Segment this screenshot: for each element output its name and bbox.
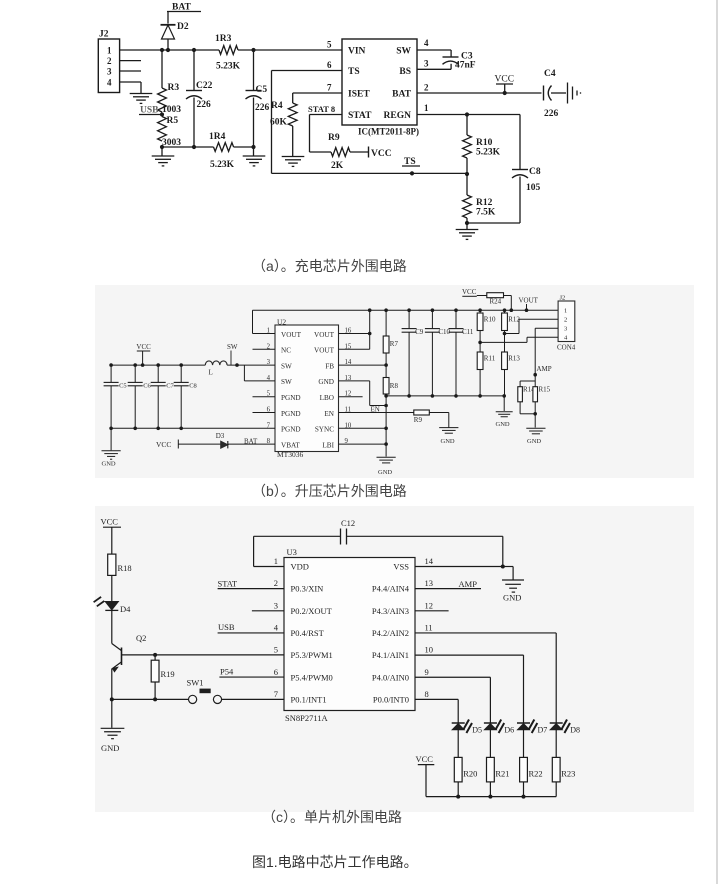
section b gray backdrop: [95, 285, 694, 478]
svg-text:GND: GND: [318, 378, 334, 386]
ground below C5 bottom rail: [243, 155, 266, 157]
svg-text:7: 7: [327, 83, 332, 93]
resistor R20: [454, 757, 462, 782]
wire CON4 pin4 jog: [480, 341, 527, 343]
svg-text:5.23K: 5.23K: [216, 62, 241, 72]
svg-text:VCC: VCC: [416, 754, 434, 764]
connector J2 CON4: [558, 301, 575, 342]
resistor R15: [534, 381, 536, 387]
node rail pin16 vertical: [368, 308, 372, 312]
svg-text:LBO: LBO: [320, 394, 334, 402]
svg-text:C5: C5: [119, 382, 127, 389]
node R14 R15 bottom: [520, 413, 535, 415]
svg-text:4: 4: [107, 78, 112, 88]
svg-text:R10: R10: [484, 316, 496, 324]
ground below AMP divider: [526, 427, 545, 429]
wire R13 rail to ground: [503, 396, 505, 411]
svg-text:2: 2: [274, 578, 278, 588]
svg-text:ISET: ISET: [348, 90, 370, 100]
wire SW pin4 to C3: [417, 49, 451, 51]
svg-text:C11: C11: [462, 328, 474, 336]
svg-text:P0.2/XOUT: P0.2/XOUT: [291, 606, 333, 616]
svg-text:（c）。单片机外围电路: （c）。单片机外围电路: [262, 809, 402, 825]
svg-text:D3: D3: [216, 432, 225, 440]
svg-text:VCC: VCC: [101, 517, 119, 527]
svg-text:C8: C8: [529, 167, 541, 177]
ground rotated right of C4: [567, 83, 569, 104]
svg-text:LBI: LBI: [322, 441, 334, 449]
ground below R13 rail: [496, 411, 513, 413]
node C6 top: [133, 363, 137, 367]
svg-text:VCC: VCC: [156, 440, 171, 449]
svg-text:MT3036: MT3036: [277, 450, 304, 459]
svg-text:J2: J2: [560, 295, 566, 302]
node R5 bottom junction: [160, 145, 164, 149]
node TS R10 R12 junction: [465, 172, 469, 176]
power VCC tick right of R9: [368, 147, 370, 158]
svg-text:47nF: 47nF: [455, 61, 476, 71]
node Q2 emitter junction: [110, 697, 114, 701]
node C11 bottom: [454, 394, 458, 398]
wire U2 pin16 pin15 to rail: [339, 333, 370, 335]
svg-text:VOUT: VOUT: [314, 347, 335, 355]
wire STAT pin8 to R9: [310, 114, 343, 116]
wire USB to pin4: [218, 632, 284, 634]
node R12 R13 junction: [503, 332, 507, 336]
svg-text:AMP: AMP: [537, 365, 552, 373]
node FB junction: [384, 363, 388, 367]
wire U2 pin9 LBI: [339, 443, 387, 445]
wire REGN pin1 run: [417, 114, 520, 116]
svg-text:VBAT: VBAT: [281, 441, 300, 449]
wire U2 pin11 EN to R9b: [339, 412, 414, 414]
svg-text:Q2: Q2: [136, 633, 146, 643]
svg-text:P0.0/INT0: P0.0/INT0: [373, 694, 409, 704]
wire R24 to rail: [504, 295, 512, 297]
svg-text:R12: R12: [476, 198, 493, 208]
svg-text:USB: USB: [140, 106, 159, 116]
resistor R10: [466, 115, 468, 136]
page right border: [716, 0, 718, 884]
wire U2 pin2 NC stub: [253, 348, 276, 350]
wire bottom rail b left: [111, 427, 275, 429]
svg-text:VCC: VCC: [136, 343, 151, 351]
svg-text:2K: 2K: [331, 161, 344, 171]
wire U2 pin6 stub: [253, 412, 276, 414]
ground below EN vertical: [376, 456, 395, 458]
capacitor C5 section b: [110, 365, 112, 382]
wire BAT to D2: [167, 12, 169, 24]
svg-text:P5.3/PWM1: P5.3/PWM1: [291, 650, 333, 660]
wire D5 to R20: [457, 730, 459, 758]
svg-text:1: 1: [564, 307, 567, 314]
wire U2 pin14 FB: [339, 364, 387, 366]
svg-text:5: 5: [274, 645, 278, 655]
svg-text:PGND: PGND: [281, 410, 301, 418]
svg-text:PGND: PGND: [281, 394, 301, 402]
svg-text:SW1: SW1: [187, 678, 204, 688]
svg-text:D7: D7: [538, 726, 548, 735]
wire VSS pin14: [415, 566, 503, 568]
svg-text:P4.2/AIN2: P4.2/AIN2: [372, 628, 409, 638]
ground at R9b: [439, 427, 458, 429]
svg-text:PGND: PGND: [281, 426, 301, 434]
wire U2 pin5 stub: [253, 396, 276, 398]
node R19 top: [153, 653, 157, 657]
svg-text:GND: GND: [101, 743, 119, 753]
wire emitter rail to SW1: [112, 698, 188, 700]
wire ISET pin7 to R4: [293, 92, 342, 94]
capacitor C7 section b: [157, 365, 159, 382]
wire pin3 stub: [252, 610, 284, 612]
wire J2 pin3 stub: [120, 70, 141, 72]
node pin16 junction: [368, 332, 372, 336]
node C11 top: [454, 308, 458, 312]
wire R12 bottom to C8: [467, 222, 520, 224]
ground below R12: [456, 229, 479, 231]
led D4: [105, 602, 118, 610]
diode D3: [221, 441, 228, 448]
svg-text:11: 11: [425, 622, 433, 632]
resistor R11: [479, 342, 481, 352]
resistor R21: [487, 757, 495, 782]
svg-text:CON4: CON4: [557, 344, 576, 352]
svg-text:13: 13: [425, 578, 434, 588]
wire C12 to VSS: [347, 535, 503, 537]
svg-text:R15: R15: [539, 386, 551, 394]
svg-text:9: 9: [425, 667, 429, 677]
node C9 top: [407, 308, 411, 312]
svg-text:D4: D4: [120, 604, 131, 614]
capacitor C8: [519, 115, 521, 170]
svg-text:STAT 8: STAT 8: [308, 104, 335, 114]
node C7 bottom: [156, 427, 160, 431]
ground at J2 pin4: [130, 93, 153, 95]
wire main VIN rail: [120, 49, 219, 51]
svg-text:P0.1/INT1: P0.1/INT1: [291, 694, 327, 704]
svg-text:5.23K: 5.23K: [476, 148, 501, 158]
svg-text:5: 5: [327, 40, 332, 50]
resistor R7: [385, 310, 387, 336]
capacitor C9: [408, 310, 410, 328]
node R13 bottom rail end: [502, 394, 506, 398]
resistor R23: [552, 757, 560, 782]
wire D3 to U2 pin8: [228, 443, 275, 445]
node pin13 to EN vertical: [384, 404, 388, 408]
led D7: [523, 715, 525, 724]
resistor R12: [463, 195, 472, 218]
svg-text:7.5K: 7.5K: [476, 208, 496, 218]
node R3 tap: [160, 48, 164, 52]
wire R20 to rail: [457, 782, 459, 797]
wire AMP divider to ground: [534, 414, 536, 428]
svg-text:R18: R18: [118, 563, 132, 573]
svg-text:226: 226: [197, 100, 212, 110]
wire EN vertical to ground: [385, 396, 387, 457]
wire bottom rail 2 section b: [386, 395, 504, 397]
resistor R10 section b: [479, 310, 481, 313]
node R10 R11 junction: [478, 341, 482, 345]
svg-text:P54: P54: [220, 667, 234, 677]
svg-text:VOUT: VOUT: [314, 331, 335, 339]
wire R9b to ground: [429, 412, 449, 414]
wire pin13 AMP: [415, 588, 481, 590]
svg-text:C6: C6: [143, 382, 151, 389]
svg-text:（b）。升压芯片外围电路: （b）。升压芯片外围电路: [252, 483, 407, 499]
svg-text:3: 3: [424, 59, 429, 69]
svg-text:12: 12: [425, 600, 434, 610]
svg-text:1: 1: [274, 556, 278, 566]
node R20 rail: [456, 795, 460, 799]
svg-text:P0.3/XIN: P0.3/XIN: [291, 584, 324, 594]
svg-text:5.23K: 5.23K: [210, 160, 235, 170]
svg-text:3: 3: [564, 325, 567, 332]
svg-text:SW: SW: [281, 362, 292, 370]
svg-text:3: 3: [107, 67, 112, 77]
node AMP: [533, 373, 537, 377]
node C5 tap: [251, 48, 255, 52]
svg-text:C8: C8: [189, 382, 197, 389]
svg-text:6: 6: [274, 667, 278, 677]
node VCC tap on BAT wire: [503, 91, 507, 95]
wire Q2 emitter to ground: [111, 699, 113, 727]
wire Q2 emitter down: [111, 669, 113, 700]
node C7 top: [156, 363, 160, 367]
svg-text:VCC: VCC: [495, 75, 515, 85]
wire D6 to R21: [489, 730, 491, 758]
svg-text:USB: USB: [218, 622, 235, 632]
svg-text:GND: GND: [503, 593, 521, 603]
node R19 bottom: [153, 697, 157, 701]
svg-text:VCC: VCC: [462, 288, 477, 296]
charger IC U1 MT2011-8P: [342, 39, 417, 125]
svg-text:D8: D8: [570, 726, 580, 735]
wire U2 pin10 SYNC: [339, 427, 387, 429]
node C5 bottom: [251, 145, 255, 149]
svg-text:1R4: 1R4: [209, 132, 226, 142]
svg-text:1: 1: [107, 46, 112, 56]
svg-text:SN8P2711A: SN8P2711A: [285, 713, 329, 723]
svg-text:P4.3/AIN3: P4.3/AIN3: [372, 606, 409, 616]
wire pin8 to D5: [415, 698, 458, 700]
svg-text:D5: D5: [472, 726, 482, 735]
svg-text:STAT: STAT: [218, 579, 238, 589]
svg-text:R10: R10: [476, 138, 493, 148]
wire Q2 base to pin5: [122, 654, 285, 656]
wire TS pin6 run: [272, 70, 343, 72]
svg-text:C9: C9: [415, 328, 424, 336]
wire R12 bottom to ground: [466, 223, 468, 229]
capacitor C22: [193, 50, 195, 90]
svg-text:R13: R13: [508, 355, 520, 363]
svg-text:SYNC: SYNC: [315, 426, 334, 434]
svg-text:NC: NC: [281, 347, 291, 355]
wire U2 pin13 GND jog: [339, 380, 370, 382]
svg-text:226: 226: [544, 109, 559, 119]
node R8 bottom rail: [384, 394, 388, 398]
capacitor C3: [443, 56, 459, 58]
node C10 top: [431, 308, 435, 312]
svg-text:VDD: VDD: [291, 562, 309, 572]
svg-text:R23: R23: [561, 769, 575, 779]
svg-text:2: 2: [107, 56, 112, 66]
svg-text:SW: SW: [396, 47, 411, 57]
wire P54 to pin6: [219, 676, 284, 678]
wire pin11 to D8: [415, 632, 556, 634]
svg-text:R3: R3: [168, 83, 180, 93]
svg-text:3: 3: [274, 600, 278, 610]
svg-text:SW: SW: [227, 343, 238, 351]
led D6: [489, 715, 491, 724]
svg-text:4: 4: [424, 38, 429, 48]
ground below Q2: [101, 727, 125, 729]
capacitor C11: [455, 310, 457, 328]
wire D8 to R23: [555, 730, 557, 758]
resistor R9 section b: [414, 410, 430, 415]
wire R22 to rail: [523, 782, 525, 797]
resistor R12 section b: [504, 310, 506, 313]
svg-text:14: 14: [425, 556, 434, 566]
svg-text:R5: R5: [167, 116, 179, 126]
diode D2: [161, 24, 176, 26]
node R21 rail: [488, 795, 492, 799]
wire bottom rail a: [162, 146, 214, 148]
resistor R3: [161, 50, 163, 88]
wire J2 pin4 to ground: [120, 81, 141, 83]
connector J2: [98, 39, 119, 93]
svg-text:U3: U3: [287, 547, 297, 557]
svg-text:1003: 1003: [162, 105, 181, 115]
node C6 bottom: [133, 427, 137, 431]
wire USB stub: [139, 114, 162, 116]
resistor R19: [154, 655, 156, 660]
svg-text:VCC: VCC: [371, 149, 392, 159]
svg-text:GND: GND: [496, 421, 510, 428]
node C9 bottom: [407, 394, 411, 398]
wire J2 pin2 stub: [120, 60, 141, 62]
node R12 bottom: [465, 221, 469, 225]
svg-text:VIN: VIN: [348, 47, 366, 57]
resistor R14: [534, 375, 536, 381]
svg-text:R4: R4: [271, 101, 283, 111]
svg-text:R20: R20: [463, 769, 477, 779]
wire C5 bottom to ground: [253, 147, 255, 156]
MCU U3 SN8P2711A: [284, 558, 415, 711]
svg-text:P0.4/RST: P0.4/RST: [291, 628, 325, 638]
resistor R8: [385, 365, 387, 377]
section c gray backdrop: [95, 506, 694, 812]
svg-text:10: 10: [425, 645, 434, 655]
resistor R22: [520, 757, 528, 782]
svg-text:6: 6: [327, 60, 332, 70]
node SW: [235, 363, 239, 367]
wire SW node: [227, 364, 275, 366]
svg-text:7: 7: [274, 689, 278, 699]
svg-text:U2: U2: [277, 317, 286, 326]
svg-text:GND: GND: [102, 461, 116, 468]
svg-text:R21: R21: [495, 769, 509, 779]
resistor R13: [504, 334, 506, 353]
wire pin9 to D6: [415, 676, 490, 678]
node C22 bottom: [192, 145, 196, 149]
svg-text:1: 1: [424, 103, 429, 113]
wire VCC to D3: [178, 443, 220, 445]
svg-text:R22: R22: [529, 769, 543, 779]
svg-text:TS: TS: [348, 67, 360, 77]
node TS tick: [410, 171, 414, 175]
svg-text:D6: D6: [504, 726, 514, 735]
wire BAT pin2 run: [417, 92, 542, 94]
svg-text:VSS: VSS: [393, 562, 409, 572]
resistor R18: [108, 554, 116, 575]
wire cap rail to inductor: [111, 364, 205, 366]
node USB junction: [160, 112, 164, 116]
svg-text:P4.4/AIN4: P4.4/AIN4: [372, 584, 410, 594]
wire U2 pin12 LBO stub: [339, 396, 363, 398]
svg-text:C7: C7: [166, 382, 174, 389]
ground section b left: [101, 450, 120, 452]
wire pin10 to D7: [415, 654, 524, 656]
svg-text:R9: R9: [414, 416, 423, 424]
svg-text:（a）。充电芯片外围电路: （a）。充电芯片外围电路: [252, 258, 407, 274]
node R10 top: [465, 112, 469, 116]
wire VDD pin1 loop to C12: [254, 566, 284, 568]
node C5 bottom: [109, 427, 113, 431]
svg-text:P5.4/PWM0: P5.4/PWM0: [291, 672, 333, 682]
wire D2 to main node: [167, 39, 169, 50]
svg-text:AMP: AMP: [459, 579, 478, 589]
svg-text:BAT: BAT: [392, 90, 411, 100]
node C8b top: [179, 363, 183, 367]
svg-text:GND: GND: [441, 438, 455, 445]
wire VSS to ground: [503, 566, 513, 568]
node C5 top: [109, 363, 113, 367]
wire R23 to rail: [555, 782, 557, 797]
wire C4 to ground: [551, 92, 566, 94]
wire CON4 pin3 to AMP: [535, 327, 558, 329]
svg-text:VOUT: VOUT: [519, 297, 539, 305]
node D2 tap: [166, 48, 170, 52]
led D8: [555, 715, 557, 724]
wire R18 to D4: [111, 575, 113, 601]
wire BS pin3 to C3: [417, 68, 451, 70]
svg-text:GND: GND: [527, 438, 541, 445]
led D5: [457, 715, 459, 724]
node VSS ground junction: [501, 565, 505, 569]
svg-text:105: 105: [526, 183, 541, 193]
wire C5 bottom to ground: [110, 428, 112, 450]
svg-text:STAT: STAT: [348, 111, 372, 121]
wire CON4 pin2 jog: [505, 333, 520, 335]
svg-text:IC(MT2011-8P): IC(MT2011-8P): [358, 127, 419, 137]
svg-text:EN: EN: [324, 410, 334, 418]
svg-text:VOUT: VOUT: [281, 331, 302, 339]
svg-text:P4.0/AIN0: P4.0/AIN0: [372, 672, 409, 682]
svg-text:R11: R11: [484, 355, 496, 363]
wire pin12 stub: [415, 610, 449, 612]
node LBI junction: [384, 442, 388, 446]
svg-text:FB: FB: [325, 362, 334, 370]
wire top rail b: [253, 309, 559, 311]
svg-text:8: 8: [425, 689, 429, 699]
svg-text:BAT: BAT: [244, 438, 258, 446]
svg-text:R9: R9: [328, 133, 340, 143]
node SYNC junction: [384, 427, 388, 431]
node C8 bottom: [179, 427, 183, 431]
ground below R5: [152, 155, 175, 157]
wire STAT to pin2: [218, 588, 284, 590]
wire R9 to VCC tick: [350, 151, 368, 153]
